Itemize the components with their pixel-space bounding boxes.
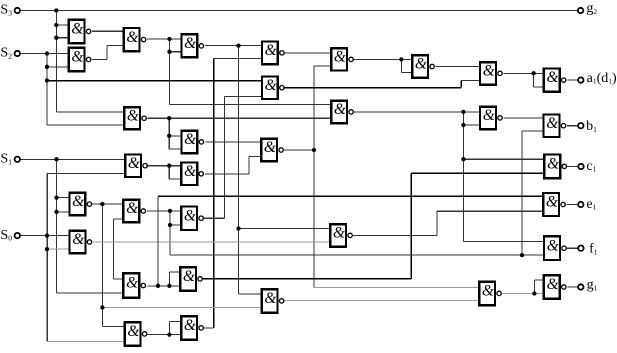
- svg-text:&: &: [72, 231, 84, 248]
- svg-text:&: &: [184, 35, 196, 52]
- svg-text:&: &: [333, 225, 345, 242]
- svg-text:&: &: [71, 49, 83, 66]
- svg-text:&: &: [546, 194, 558, 211]
- svg-text:&: &: [547, 276, 559, 293]
- svg-text:&: &: [264, 139, 276, 156]
- svg-text:&: &: [264, 290, 276, 307]
- svg-text:&: &: [184, 163, 196, 180]
- svg-text:&: &: [126, 200, 138, 217]
- svg-text:&: &: [483, 63, 495, 80]
- svg-text:&: &: [72, 193, 84, 210]
- svg-text:&: &: [546, 115, 558, 132]
- svg-text:&: &: [265, 42, 277, 59]
- svg-text:&: &: [126, 29, 138, 46]
- svg-text:&: &: [128, 155, 140, 172]
- svg-text:&: &: [183, 268, 195, 285]
- svg-text:a1(d1): a1(d1): [587, 71, 617, 86]
- svg-text:&: &: [482, 283, 494, 300]
- svg-text:&: &: [547, 156, 559, 173]
- svg-text:&: &: [184, 317, 196, 334]
- svg-text:&: &: [127, 107, 139, 124]
- svg-text:&: &: [127, 323, 139, 340]
- svg-text:&: &: [547, 237, 559, 254]
- svg-text:&: &: [184, 131, 196, 148]
- svg-text:&: &: [126, 275, 138, 292]
- svg-text:&: &: [415, 56, 427, 73]
- svg-text:&: &: [334, 49, 346, 66]
- svg-text:&: &: [184, 207, 196, 224]
- svg-text:&: &: [483, 107, 495, 124]
- svg-text:&: &: [265, 77, 277, 94]
- svg-text:&: &: [546, 69, 558, 86]
- svg-text:&: &: [334, 101, 346, 118]
- svg-text:&: &: [71, 21, 83, 38]
